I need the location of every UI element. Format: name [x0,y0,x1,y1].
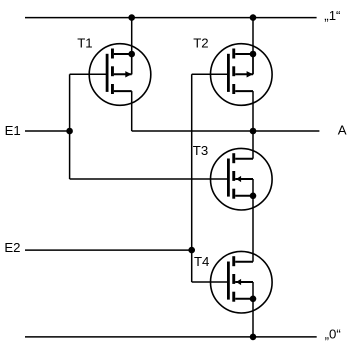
wire: T1 drain down to output line [131,91,133,131]
bottom supply rail "0" [25,336,317,338]
svg-text:A: A [338,123,347,138]
svg-text:T1: T1 [77,35,92,50]
wire: E1 vertical (T1 gate to T3 gate) [69,74,71,179]
transistor T1 (p-channel MOSFET) [89,44,151,106]
svg-text:T2: T2 [193,35,208,50]
wire: T4 source down to bottom rail [252,299,254,337]
junction: node E1 [66,128,73,135]
svg-text:E1: E1 [5,123,21,138]
wire: T2 gate lead [192,73,228,75]
svg-text:E2: E2 [4,240,20,255]
wire: E2 vertical (T2 gate to T4 gate) [191,74,193,282]
transistor T3 (n-channel MOSFET) [211,148,273,210]
wire: output line to A [132,130,320,132]
transistor T4 (n-channel MOSFET) [211,251,273,313]
junction: node E2 [188,247,195,254]
junction: output node A [250,128,257,135]
svg-text:„0“: „0“ [325,326,341,341]
wire: E2 input lead [25,249,192,251]
wire: T2 drain down to output node [252,91,254,131]
junction: bottom rail / T4 [250,334,257,341]
wire: top rail to T2 source [252,18,254,75]
svg-text:„1“: „1“ [324,8,340,23]
wire: T4 gate lead [192,281,228,283]
wire: output node down to T3 drain [252,131,254,159]
svg-text:T3: T3 [193,143,208,158]
transistor T2 (p-channel MOSFET) [211,44,273,106]
junction: top rail / T1 [128,14,135,21]
wire: T3 source down to T4 drain [252,196,254,262]
wire: E1 input lead [25,130,70,132]
wire: T1 gate lead [70,73,107,75]
wire: T3 gate lead [70,178,228,180]
top supply rail "1" [25,17,317,19]
svg-text:T4: T4 [194,254,209,269]
junction: top rail / T2 [250,14,257,21]
wire: top rail to T1 source [131,18,133,75]
